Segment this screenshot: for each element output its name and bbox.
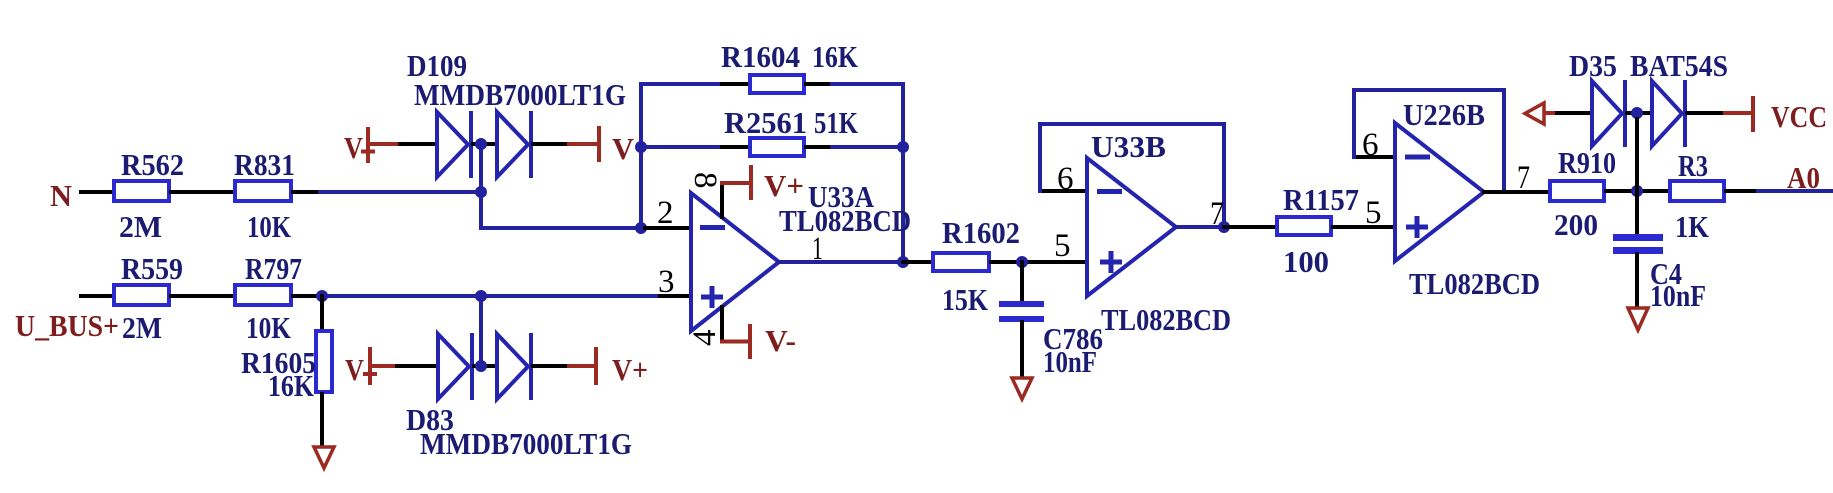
wire R831 to node A: [320, 190, 481, 194]
ground under R1605: [314, 447, 334, 468]
wire D109 cathode: [533, 142, 567, 146]
wire pin 4 to V-: [720, 307, 724, 342]
svg-text:VCC: VCC: [1771, 99, 1827, 134]
node F junction D83 mid: [475, 360, 487, 372]
svg-text:4: 4: [687, 330, 723, 347]
capacitor C4: [1613, 234, 1706, 313]
svg-text:V-: V-: [765, 323, 796, 358]
wire D109 mid: [473, 142, 497, 146]
svg-text:D35: D35: [1569, 48, 1617, 83]
wire R562 to R831: [171, 190, 233, 194]
wire pin 6 stub U226B: [1354, 155, 1395, 159]
wire to R1157: [1224, 225, 1275, 229]
wire to V- bar (red): [567, 142, 599, 146]
svg-text:R1602: R1602: [942, 215, 1020, 250]
op-amp U33B: [1087, 129, 1231, 337]
svg-text:15K: 15K: [942, 282, 988, 317]
wire to D109 anode: [400, 142, 437, 146]
svg-text:1K: 1K: [1675, 209, 1709, 244]
svg-text:R1604: R1604: [721, 39, 800, 74]
wire to V+ bar (red): [567, 364, 596, 368]
ground under C4: [1628, 308, 1648, 330]
wire pin 3 stub: [660, 294, 690, 298]
op-amp U33A: [691, 179, 911, 331]
diode D83b: [497, 333, 531, 400]
resistor R3: [1670, 148, 1724, 244]
node C junction R1605 tap: [316, 290, 328, 302]
node B junction pin2: [635, 222, 647, 234]
capacitor C786: [999, 301, 1103, 379]
wire R2561 left: [647, 145, 722, 149]
svg-text:3: 3: [658, 264, 675, 300]
svg-text:MMDB7000LT1G: MMDB7000LT1G: [414, 77, 626, 112]
diode D83a: [438, 333, 472, 400]
wire R910 to node K: [1606, 189, 1668, 193]
svg-text:BAT54S: BAT54S: [1630, 48, 1728, 83]
wire R3 to A0: [1726, 189, 1758, 193]
svg-text:10K: 10K: [246, 310, 291, 345]
wire node A vertical to pin2 row: [481, 143, 639, 228]
node A junction: [475, 186, 487, 198]
diode D35b: [1652, 80, 1685, 147]
ground under C786: [1012, 378, 1032, 399]
wire to D83 anode: [397, 364, 438, 368]
wire R1605 to ground: [320, 394, 324, 446]
wire R1604 left: [641, 82, 722, 86]
wire pin4 red part: [720, 340, 750, 344]
svg-text:A0: A0: [1787, 160, 1820, 195]
wire feedback right vertical: [901, 84, 905, 262]
node G junction R2561 right: [897, 141, 909, 153]
resistor R910: [1550, 145, 1616, 242]
resistor R559: [114, 251, 183, 345]
svg-text:R1157: R1157: [1283, 182, 1359, 217]
wire R559 to R797: [171, 294, 233, 298]
svg-text:V+: V+: [764, 168, 804, 203]
svg-text:2M: 2M: [122, 310, 162, 345]
svg-text:TL082BCD: TL082BCD: [1101, 302, 1231, 337]
resistor R1605: [241, 331, 332, 403]
power terminal V+ right of D83: [596, 347, 648, 387]
wire U226B feedback loop: [1354, 90, 1504, 192]
node I junction C786 tap: [1016, 256, 1028, 268]
resistor R562: [114, 147, 184, 244]
wire pin 8 to V+: [720, 183, 724, 217]
wire pin 6 stub U33B: [1040, 189, 1087, 193]
node V junction: [635, 141, 647, 153]
power terminal V+ left of D83: [345, 347, 377, 387]
wire U_BUS+ to R559: [81, 294, 112, 298]
svg-text:6: 6: [1362, 127, 1379, 163]
svg-text:R562: R562: [121, 147, 184, 182]
wire node F up to node D: [479, 296, 483, 360]
svg-text:16K: 16K: [812, 39, 858, 74]
wire R1602 to pin 5: [991, 260, 1087, 264]
wire to VCC bar (red): [1723, 111, 1753, 115]
node K junction: [1631, 185, 1643, 197]
svg-text:6: 6: [1057, 161, 1074, 197]
wire node E down to node A: [479, 150, 483, 192]
svg-text:51K: 51K: [814, 105, 858, 140]
svg-text:MMDB7000LT1G: MMDB7000LT1G: [420, 426, 632, 461]
resistor R1602: [933, 215, 1020, 317]
node H junction output: [897, 256, 909, 268]
svg-text:2: 2: [657, 195, 674, 231]
wire D35 cathode: [1687, 111, 1723, 115]
power terminal V- for U33A: [750, 323, 796, 359]
wire C786 to ground: [1020, 322, 1024, 377]
svg-text:V+: V+: [612, 352, 648, 387]
svg-text:R2561: R2561: [724, 105, 807, 140]
resistor R797: [235, 251, 302, 345]
wire to D35 anode: [1557, 111, 1592, 115]
diode D109a: [437, 111, 471, 178]
wire C4 to ground: [1635, 254, 1639, 307]
svg-text:N: N: [50, 178, 72, 213]
svg-text:R3: R3: [1678, 148, 1708, 183]
wire node L down to node K: [1635, 119, 1639, 191]
op-amp U226B: [1395, 97, 1540, 301]
off-sheet arrow: [1525, 103, 1544, 124]
wire D83 cathode: [533, 364, 567, 368]
svg-text:TL082BCD: TL082BCD: [779, 203, 911, 238]
wire U226B output: [1484, 190, 1548, 194]
diode D35a: [1592, 80, 1625, 147]
svg-text:7: 7: [1517, 160, 1530, 196]
svg-text:R831: R831: [234, 147, 295, 182]
wire node I down to C786: [1020, 262, 1024, 302]
wire node C to node D: [322, 294, 481, 298]
svg-text:10nF: 10nF: [1043, 344, 1097, 379]
wire node C down to R1605: [320, 296, 324, 331]
svg-text:V: V: [612, 131, 635, 166]
resistor R831: [234, 147, 295, 244]
wire feedback left vertical: [639, 84, 643, 228]
power terminal V right of D109: [599, 126, 635, 166]
svg-text:10K: 10K: [247, 209, 291, 244]
power terminal V+ for U33A: [751, 165, 804, 203]
diode D109b: [497, 111, 531, 178]
resistor R1157: [1277, 182, 1359, 279]
svg-text:5: 5: [1054, 228, 1071, 264]
wire node D to pin 3: [481, 294, 660, 298]
wire V+ bar to D83 (red): [370, 364, 397, 368]
wire D35 mid: [1627, 111, 1652, 115]
wire N to R562: [81, 190, 112, 194]
svg-text:7: 7: [1210, 196, 1224, 232]
svg-text:V: V: [345, 352, 365, 387]
wire pin 2 stub: [641, 226, 690, 230]
wire arrow to D35 (red): [1545, 111, 1557, 115]
svg-text:100: 100: [1283, 244, 1329, 279]
svg-text:10nF: 10nF: [1650, 278, 1706, 313]
wire output to R1602: [903, 260, 931, 264]
wire U33A output: [779, 260, 903, 264]
resistor R1604: [721, 39, 858, 93]
wire U33B output: [1176, 225, 1224, 229]
wire R831 stub: [293, 190, 320, 194]
svg-text:5: 5: [1365, 195, 1382, 231]
svg-text:R910: R910: [1558, 145, 1616, 180]
wire R1604 right: [806, 82, 832, 86]
svg-text:2M: 2M: [119, 209, 162, 244]
svg-text:8: 8: [687, 172, 723, 189]
svg-text:V: V: [344, 130, 364, 165]
wire U33B feedback loop: [1040, 124, 1224, 227]
resistor R2561: [724, 105, 858, 156]
svg-text:R797: R797: [245, 251, 302, 286]
svg-text:U226B: U226B: [1403, 97, 1485, 132]
node E junction D109 mid: [475, 138, 487, 150]
power terminal VCC: [1753, 96, 1827, 134]
power terminal V+ left of D109: [344, 127, 375, 165]
wire V+ bar to D109 (red): [368, 142, 400, 146]
node D junction: [475, 290, 487, 302]
wire R2561 right: [806, 145, 832, 149]
svg-text:TL082BCD: TL082BCD: [1409, 266, 1540, 301]
svg-text:200: 200: [1554, 207, 1598, 242]
svg-text:16K: 16K: [268, 368, 314, 403]
wire D83 mid: [474, 364, 497, 368]
svg-text:R559: R559: [121, 251, 183, 286]
wire node K down to C4: [1635, 191, 1639, 234]
wire R1157 to pin 5: [1333, 225, 1395, 229]
node L junction D35 mid: [1631, 107, 1643, 119]
node J junction U33B out: [1218, 221, 1230, 233]
wire R797 stub: [293, 294, 317, 298]
svg-text:U33B: U33B: [1091, 129, 1166, 164]
svg-text:U_BUS+: U_BUS+: [15, 308, 119, 343]
